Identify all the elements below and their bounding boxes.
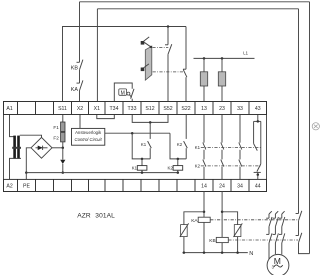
wire: X1 column down to terminal X1 (96, 9, 98, 102)
node: KB coil on N (221, 251, 224, 254)
output contacts column 13-14 (203, 115, 206, 180)
wire: fuse 1 column to terminal 13 (203, 58, 205, 101)
contact KA aux (right rail, linked to KA row) (296, 211, 302, 221)
node: L1 tap for fuse 2 (221, 57, 224, 60)
wire: between KB and KA contacts (79, 70, 81, 83)
contact K1 (internal feedback contact) (148, 122, 152, 158)
wire: PE riser (25, 173, 27, 179)
svg-text:Control Circuit: Control Circuit (74, 137, 102, 142)
node: DC supply node (62, 147, 65, 150)
svg-text:43: 43 (255, 106, 261, 112)
node: junction of S12 column on jumper (149, 121, 152, 124)
wire: A1 to transformer primary (10, 115, 14, 137)
svg-text:N: N (249, 251, 253, 257)
svg-text:KA: KA (71, 87, 79, 93)
symbol ~ (wave under M) (274, 265, 283, 267)
phase L3 line with KA/KB main contacts (279, 211, 285, 254)
contact KB aux (right rail, linked to KB row) (296, 233, 302, 243)
contact KA (aux of contactor KA, in X2 feedback chain) (77, 80, 83, 101)
mechanical link door to contact 1 (dash-dot) (152, 47, 168, 49)
svg-text:K1: K1 (195, 145, 201, 150)
node: bus junction K1 branch (131, 132, 134, 135)
wire: right rail between aux contacts (298, 221, 300, 236)
svg-text:T33: T33 (128, 106, 137, 112)
node: bottom of 43-44 loop (257, 173, 260, 176)
mechanical link row K2 (dash-dot) (201, 165, 261, 167)
output contacts column 23-24 (221, 115, 224, 180)
wire: N rail (183, 252, 248, 254)
svg-text:T34: T34 (110, 106, 119, 112)
contact: door switch 1 (guard interlock channel 1) (165, 44, 172, 101)
contact: door switch 2 (guard interlock channel 2) (183, 69, 187, 101)
contact KB (aux of contactor KB, in X2 feedback chain) (77, 2, 83, 70)
contact K2 (internal feedback contact) (184, 115, 188, 159)
fuse F (line fuse on 23) (218, 72, 225, 86)
svg-text:K2: K2 (195, 164, 201, 169)
start/reset button M between T34 and T33 (114, 83, 134, 102)
svg-text:A2: A2 (6, 184, 12, 190)
node: junction on S11 line at door contact 1 (167, 25, 170, 28)
wire: K1 branch U (132, 133, 150, 159)
svg-text:13: 13 (201, 106, 207, 112)
labels: top terminal row (6, 106, 260, 112)
mechanical link row KA (dash-dot) (210, 219, 298, 221)
wire: transformer bottom to A2 (10, 158, 22, 179)
svg-text:S12: S12 (145, 106, 154, 112)
wire: rectifier minus to 0V rail corner (26, 148, 31, 173)
svg-text:KB: KB (209, 238, 215, 244)
note marker circle at right edge (312, 123, 319, 130)
bridge rectifier V1 (diamond with diode) (31, 137, 52, 158)
mechanical link door to contact 2 (dash-dot) (153, 71, 184, 73)
transformer T1 (primary and secondary bars) (12, 136, 21, 159)
fuse F2 (61, 132, 65, 142)
wire: logic output bus (105, 132, 170, 134)
phase L1 line with KA/KB main contacts (266, 211, 272, 259)
logic block U1 Ansteuerlogik (72, 128, 105, 145)
fuse F1 (61, 122, 65, 132)
phase L2 line with KA/KB main contacts (273, 211, 279, 254)
svg-text:S11: S11 (58, 106, 67, 112)
wire: inner feedback rail down from top line 2 (298, 9, 300, 214)
svg-text:34: 34 (237, 184, 243, 190)
wire: transformer secondary top to rectifier (20, 135, 42, 137)
svg-text:X2: X2 (77, 106, 83, 112)
node: K2 coil tap (177, 158, 180, 161)
wire: varistor 1 branch (184, 212, 204, 253)
svg-text:PE: PE (23, 184, 30, 190)
contactor coil KA (198, 217, 210, 222)
svg-text:24: 24 (219, 184, 225, 190)
wire: 14 column down to N rail (203, 192, 205, 253)
node: KB branch junction (221, 211, 224, 214)
varistor R2 (suppressor across KB) (234, 223, 243, 237)
wire: 24 column down to N rail (221, 192, 223, 253)
svg-text:F2: F2 (53, 135, 59, 140)
node: KA branch junction (203, 211, 206, 214)
svg-text:K1: K1 (141, 142, 147, 147)
wire: feedback loop top line 2 (from X1 to right rail 2) (97, 8, 298, 10)
svg-text:AZR: AZR (77, 212, 91, 219)
svg-text:X1: X1 (94, 106, 100, 112)
node: varistor 1 on N (183, 251, 186, 254)
svg-text:301AL: 301AL (95, 212, 115, 219)
svg-text:44: 44 (255, 184, 261, 190)
svg-text:S52: S52 (163, 106, 172, 112)
output contacts column 33-34 (239, 115, 242, 180)
svg-text:14: 14 (201, 184, 207, 190)
wire: fuse 2 column to terminal 23 (221, 58, 223, 101)
wire: rectifier plus to fuse node (52, 147, 63, 149)
mechanical link row K1 (dash-dot) (201, 147, 261, 149)
svg-text:L1: L1 (243, 51, 248, 56)
node: varistor 2 on N (236, 251, 239, 254)
wire: door contact 1 column upper (167, 27, 169, 45)
svg-text:Ansteuerlogik: Ansteuerlogik (75, 130, 102, 135)
wire: right rail bottom U back up to top line 2 (299, 243, 310, 254)
jumper T33 to S52 (below terminal row) (132, 115, 168, 123)
svg-text:K2: K2 (168, 165, 174, 170)
svg-text:K1: K1 (132, 165, 138, 170)
svg-text:KA: KA (191, 218, 198, 224)
terminal row top (4, 102, 267, 115)
svg-text:23: 23 (219, 106, 225, 112)
wire: varistor 2 branch (222, 212, 238, 253)
node: top of 43-44 loop (257, 120, 260, 123)
contactor coil KB (216, 237, 228, 242)
wire: K2 branch U (170, 133, 186, 159)
svg-text:S22: S22 (181, 106, 190, 112)
svg-text:F1: F1 (53, 125, 59, 130)
relay coil K2 (173, 159, 183, 173)
node: L1 tap for fuse 1 (203, 57, 206, 60)
node: diode junction on 0V rail (62, 171, 65, 174)
wire: L1 supply line (194, 57, 255, 59)
guard door symbol (grey parallelogram) (145, 46, 152, 80)
terminal row bottom (4, 179, 267, 192)
svg-text:KB: KB (71, 65, 79, 71)
motor M1 (3~) (267, 254, 289, 275)
device outline box AZR 301AL (4, 102, 267, 192)
wire: door contact 2 column upper (185, 27, 187, 70)
node: K1 coil on 0V rail (141, 171, 144, 174)
wire: below F2 to DC node (62, 142, 64, 148)
node: PE junction on 0V rail (25, 171, 28, 174)
labels: bottom terminal row (6, 184, 260, 190)
svg-text:33: 33 (237, 106, 243, 112)
wire: X2 into logic block (79, 115, 81, 129)
wire: S11 terminal down to fuse F1 (62, 115, 64, 123)
fuse F (line fuse on 13) (200, 72, 207, 86)
varistor R1 (suppressor across KA) (180, 223, 189, 237)
actuator: door cam bottom (141, 64, 149, 71)
node: KA coil on N (203, 251, 206, 254)
wire: internal 0V rail (26, 172, 178, 174)
diode V2 to 0V rail (60, 148, 65, 173)
actuator: door cam top (141, 37, 152, 48)
svg-text:M: M (121, 90, 125, 96)
wire: outer feedback rail (from top line 1) (309, 2, 311, 254)
node: K1 coil tap (141, 158, 144, 161)
wire: feedback loop top line 1 (from X2 chain to right rail) (80, 1, 310, 3)
svg-text:K2: K2 (177, 142, 183, 147)
svg-text:A1: A1 (6, 106, 12, 112)
mechanical link row KB (dash-dot) (228, 239, 298, 241)
signalling path 43-44 (series NC loop) (254, 115, 261, 180)
node: K2 coil on 0V rail (177, 171, 180, 174)
node: S11 supply line to door switches (63, 27, 187, 102)
relay coil K1 (137, 159, 147, 173)
jumper X1 to T34 (below terminal row) (97, 115, 115, 119)
